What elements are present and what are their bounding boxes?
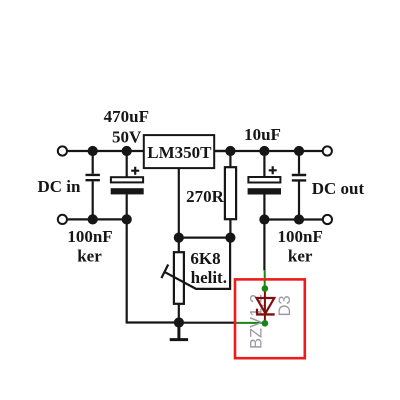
terminal DC in + [58, 146, 67, 155]
svg-text:DC out: DC out [312, 179, 365, 198]
node D3 anode (green) [262, 285, 269, 292]
terminal DC out - [323, 215, 332, 224]
wire top rail left [62, 150, 143, 152]
node junction top rail at C2 [122, 146, 132, 156]
wire P1 wiper connection to adjust rail [165, 238, 230, 289]
wire P1 bottom lead [178, 304, 180, 323]
svg-text:D3: D3 [276, 295, 294, 316]
terminal DC out + [323, 146, 332, 155]
svg-text:270R: 270R [186, 187, 225, 206]
node junction bottom rail at C3 [259, 214, 269, 224]
wire C3 bottom lead [263, 195, 265, 220]
wire P1 top lead [178, 238, 180, 253]
wire top rail right [214, 150, 327, 152]
resistor R1 270R body [225, 167, 236, 219]
svg-text:ker: ker [288, 247, 313, 266]
svg-text:ker: ker [77, 247, 102, 266]
wire C3 top lead [263, 151, 265, 177]
wire C2 bottom lead [126, 194, 128, 219]
svg-text:100nF: 100nF [67, 227, 112, 246]
svg-text:helit.: helit. [191, 268, 227, 287]
ground [170, 323, 188, 340]
svg-text:10uF: 10uF [244, 125, 281, 144]
wire green segment above D3 [264, 270, 266, 286]
wire bottom rail right [264, 218, 327, 220]
svg-text:100nF: 100nF [278, 227, 323, 246]
node junction bottom rail at C4 [294, 214, 304, 224]
svg-text:6K8: 6K8 [190, 249, 220, 268]
wire right rail down to D3 (black part) [263, 220, 265, 271]
capacitor C1 100nF ceramic plates [86, 175, 100, 180]
node junction top rail at R1 [225, 146, 235, 156]
node junction adjust rail left [174, 233, 184, 243]
wire R1 top lead [229, 151, 231, 167]
wire R1 bottom lead [229, 219, 231, 237]
wire U1 output to right rail [214, 150, 230, 152]
C2 plus sign [131, 167, 139, 175]
node junction top rail at C3 [259, 146, 269, 156]
capacitor C3 10uF electrolytic top plate [248, 177, 280, 183]
wire green segment left of D3 [236, 322, 264, 324]
capacitor C2 470uF electrolytic bottom plate [111, 188, 144, 194]
svg-text:470uF: 470uF [104, 107, 149, 126]
capacitor C3 10uF electrolytic bottom plate [248, 188, 281, 194]
red highlight box around D3 [235, 279, 305, 358]
wire C4 bottom lead [298, 182, 300, 220]
node junction bottom rail at C2 [122, 214, 132, 224]
diode D3 zener tick [256, 309, 258, 315]
node junction top rail at C1 [88, 146, 98, 156]
wire bottom junction to D3 (black part) [179, 322, 236, 324]
node D3 cathode (green) [262, 320, 269, 327]
wire C4 top lead [298, 151, 300, 174]
wire C1 top lead [92, 151, 94, 174]
diode D3 zener bar [256, 313, 275, 315]
node junction top rail at C4 [294, 146, 304, 156]
node junction bottom rail at C1 [88, 214, 98, 224]
terminal DC in - [58, 215, 67, 224]
svg-text:DC in: DC in [38, 177, 82, 196]
capacitor C2 470uF electrolytic top plate [111, 177, 143, 182]
diode D3 wire through [264, 289, 266, 324]
svg-text:50V: 50V [112, 128, 142, 147]
wire U1 adjust pin [178, 168, 180, 238]
wire ground run from left rail to bottom junction [127, 219, 179, 322]
C3 plus sign [269, 166, 277, 174]
wire bottom rail left [62, 218, 126, 220]
trimmer P1 6K8 body [174, 252, 184, 304]
op-amp U1 LM350T regulator box [144, 135, 214, 168]
wire P1 wiper tail tick [161, 265, 168, 279]
svg-text:LM350T: LM350T [147, 143, 212, 162]
wire C1 bottom lead [92, 181, 94, 219]
diode D3 triangle [257, 298, 275, 313]
wire C2 top lead [126, 151, 128, 177]
capacitor C4 100nF ceramic plates [292, 175, 306, 180]
wire adjust rail [179, 237, 231, 239]
node junction adjust rail right [225, 233, 235, 243]
node junction ground [174, 317, 184, 327]
